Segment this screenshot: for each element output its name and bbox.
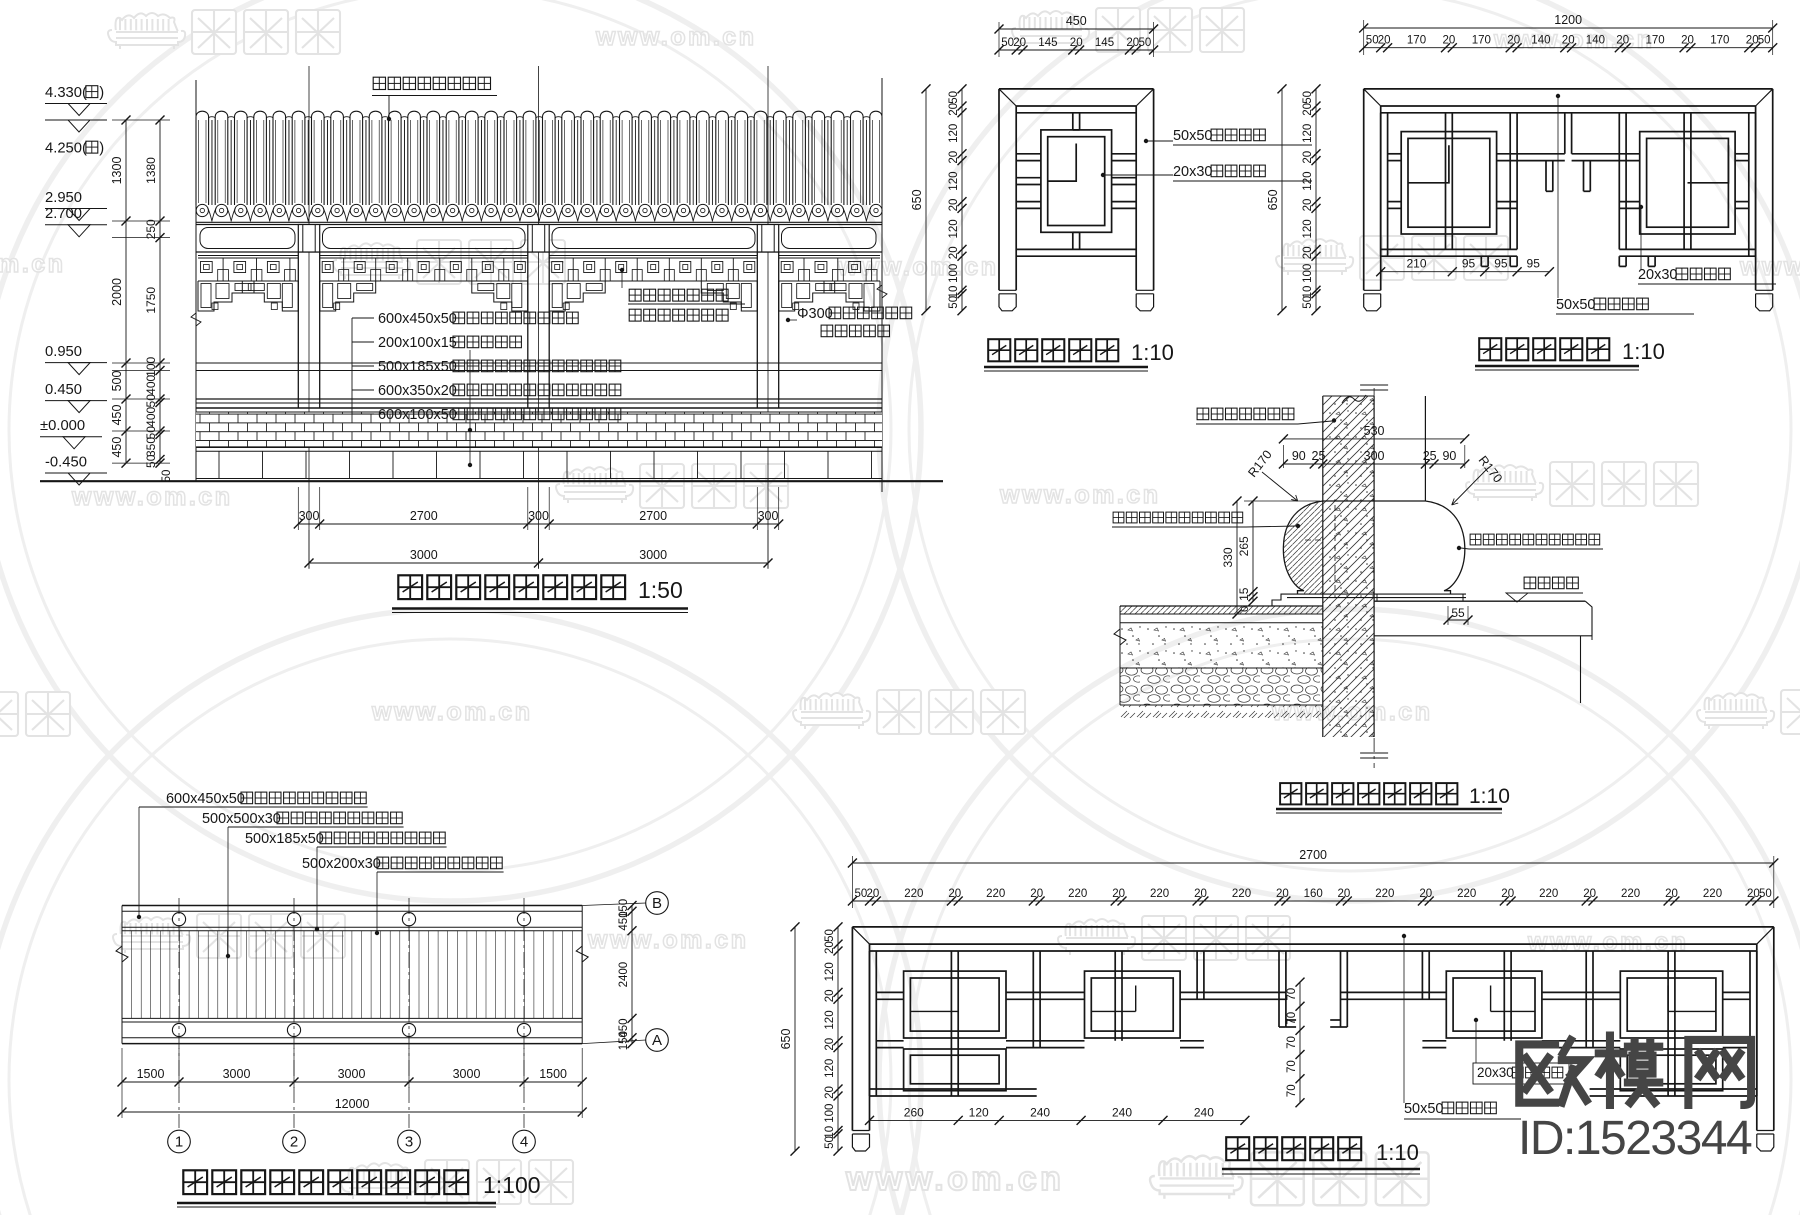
svg-text:600x100x50: 600x100x50 <box>378 407 457 423</box>
elevation eave circles and drips <box>196 204 208 216</box>
elevation bottom dimensions <box>297 487 299 530</box>
svg-text:1:10: 1:10 <box>1131 340 1174 365</box>
column base concrete column section hatch <box>1323 396 1374 737</box>
svg-text:3000: 3000 <box>223 1067 251 1081</box>
svg-text:3000: 3000 <box>338 1067 366 1081</box>
svg-text:12000: 12000 <box>335 1097 370 1111</box>
svg-text:20: 20 <box>1302 103 1314 116</box>
svg-text:220: 220 <box>1457 888 1476 900</box>
column base plinth <box>1287 593 1466 595</box>
svg-text:20: 20 <box>1419 888 1432 900</box>
plan band break marks <box>116 906 128 1044</box>
column neck elevation edge <box>1424 396 1426 501</box>
svg-text:50: 50 <box>1758 35 1771 47</box>
svg-text:20: 20 <box>1302 199 1314 212</box>
svg-text:220: 220 <box>1703 888 1722 900</box>
ground slab 55 dim <box>1447 606 1449 625</box>
svg-text:www.om.cn: www.om.cn <box>837 253 998 281</box>
svg-text:1500: 1500 <box>539 1067 567 1081</box>
svg-text:50: 50 <box>948 296 960 309</box>
adjacent ground slab right <box>1374 600 1585 602</box>
svg-text:250: 250 <box>144 219 158 239</box>
gualuo panel 1 legs and feet <box>852 1130 869 1132</box>
svg-text:500x500x30: 500x500x30 <box>202 811 281 827</box>
site watermark logo 欧模网 <box>1519 1035 1751 1104</box>
column base label 相邻地面 <box>1524 577 1536 589</box>
svg-text:50: 50 <box>1139 37 1152 49</box>
svg-text:120: 120 <box>969 1105 989 1119</box>
plan band horizontal lines <box>122 905 582 907</box>
floor buildup left of column <box>1120 606 1323 614</box>
column base label right 柱墩 <box>1470 534 1481 545</box>
svg-text:20: 20 <box>1126 37 1139 49</box>
elevation hanging fret band <box>198 255 298 257</box>
svg-text:50: 50 <box>144 454 158 468</box>
svg-text:170: 170 <box>1472 35 1491 47</box>
svg-text:100: 100 <box>1302 264 1314 283</box>
svg-text:15: 15 <box>1237 587 1251 601</box>
svg-text:20: 20 <box>1507 35 1520 47</box>
svg-text:450: 450 <box>1066 14 1087 28</box>
elevation brick band <box>196 412 882 447</box>
svg-text:3000: 3000 <box>639 548 667 562</box>
svg-text:50x50: 50x50 <box>1404 1101 1443 1117</box>
elevation vertical dimension chains <box>112 119 170 121</box>
svg-text:50: 50 <box>144 394 158 408</box>
svg-text:www.om.cn: www.om.cn <box>371 698 532 726</box>
svg-text:1300: 1300 <box>110 157 124 185</box>
plan right dim chain <box>631 906 633 1044</box>
svg-text:20: 20 <box>1562 35 1575 47</box>
svg-text:20: 20 <box>1276 888 1289 900</box>
svg-text:1: 1 <box>175 1134 183 1151</box>
svg-text:3000: 3000 <box>453 1067 481 1081</box>
elevation title 长廊标准段立面图 <box>398 575 422 599</box>
svg-text:4: 4 <box>520 1134 528 1151</box>
column base left vertical dims <box>1244 500 1320 502</box>
gualuo panel 3 top dimensions <box>999 28 1154 30</box>
column base top line <box>1323 500 1426 502</box>
svg-text:20: 20 <box>1338 888 1351 900</box>
svg-text:70: 70 <box>1286 1084 1298 1097</box>
gualuo panel 2 top dimensions <box>1364 27 1773 29</box>
svg-text:-0.450: -0.450 <box>45 454 87 470</box>
svg-text:50x50: 50x50 <box>1556 297 1595 313</box>
svg-text:50x50: 50x50 <box>1173 128 1212 144</box>
svg-text:650: 650 <box>779 1029 793 1050</box>
svg-text:95: 95 <box>1462 257 1476 271</box>
svg-text:500x200x30: 500x200x30 <box>302 856 381 872</box>
svg-text:95: 95 <box>1527 257 1541 271</box>
gualuo panel 1 left dimension chains <box>837 927 839 1151</box>
gualuo panel 3 legs and feet <box>999 289 1016 291</box>
elevation grid lines <box>308 66 310 568</box>
svg-text:70: 70 <box>1286 1036 1298 1049</box>
svg-text:100: 100 <box>144 356 158 376</box>
svg-text:20: 20 <box>1112 888 1125 900</box>
svg-text:530: 530 <box>1364 424 1385 438</box>
svg-text:600x450x50: 600x450x50 <box>378 311 457 327</box>
svg-text:1:100: 1:100 <box>483 1172 541 1198</box>
column base label 钢筋混凝土立柱 <box>1197 408 1209 420</box>
svg-text:70: 70 <box>1286 1012 1298 1025</box>
svg-text:0: 0 <box>1239 606 1251 612</box>
svg-text:300: 300 <box>299 509 320 523</box>
svg-text:20: 20 <box>1443 35 1456 47</box>
svg-text:20x30: 20x30 <box>1477 1065 1514 1080</box>
svg-text:600x450x50: 600x450x50 <box>166 791 245 807</box>
svg-text:20: 20 <box>1194 888 1207 900</box>
svg-text:100: 100 <box>948 264 960 283</box>
svg-text:Φ300: Φ300 <box>797 306 833 322</box>
svg-text:20: 20 <box>948 246 960 259</box>
svg-text:20: 20 <box>1013 37 1026 49</box>
svg-text:1:10: 1:10 <box>1622 339 1665 364</box>
svg-text:220: 220 <box>1232 888 1251 900</box>
svg-text:650: 650 <box>1266 189 1280 210</box>
svg-text:170: 170 <box>1646 35 1665 47</box>
svg-text:100: 100 <box>824 1104 836 1123</box>
svg-text:450: 450 <box>110 437 124 458</box>
svg-text:240: 240 <box>1030 1105 1050 1119</box>
gualuo panel 1 labels <box>1403 938 1405 1103</box>
plan bottom dimensions <box>121 1048 123 1088</box>
gualuo panel 2 title <box>1479 338 1501 360</box>
gualuo panel 1 frame <box>852 927 1773 1131</box>
elevation columns <box>297 252 299 408</box>
svg-text:www.om.cn: www.om.cn <box>587 926 748 954</box>
svg-text:160: 160 <box>1304 888 1323 900</box>
column base centerline end marks <box>1360 384 1388 386</box>
svg-text:300: 300 <box>528 509 549 523</box>
svg-text:450: 450 <box>618 911 630 930</box>
gualuo panel 1 inner dims 70x5 <box>1299 982 1301 1103</box>
floor left break line <box>1114 606 1126 705</box>
svg-text:1380: 1380 <box>144 157 158 184</box>
gualuo panel 1 inner dims bottom <box>870 1119 1245 1121</box>
svg-text:1750: 1750 <box>144 287 158 314</box>
svg-text:120: 120 <box>824 1010 836 1029</box>
svg-text:B: B <box>652 895 662 912</box>
svg-text:2700: 2700 <box>639 509 667 523</box>
svg-text:20: 20 <box>1070 37 1083 49</box>
svg-text:50: 50 <box>161 470 173 483</box>
svg-text:www.om.cn: www.om.cn <box>71 483 232 511</box>
svg-text:500x185x50: 500x185x50 <box>378 359 457 375</box>
plan axis bubbles A B <box>582 903 646 906</box>
gualuo panel 2 legs and feet <box>1364 289 1381 291</box>
gualuo panel 1 lattice <box>870 951 1757 1096</box>
svg-text:300: 300 <box>1364 449 1385 463</box>
svg-text:www.om.cn: www.om.cn <box>595 23 756 51</box>
column base centerline <box>1373 388 1375 768</box>
svg-text:4.330(: 4.330( <box>45 85 87 101</box>
gualuo panel 3 frame <box>999 89 1154 290</box>
svg-text:20: 20 <box>1583 888 1596 900</box>
svg-text:220: 220 <box>904 888 923 900</box>
svg-text:140: 140 <box>1531 35 1550 47</box>
svg-text:1:50: 1:50 <box>638 577 683 603</box>
column base dim 530 <box>1282 445 1284 468</box>
svg-text:220: 220 <box>1150 888 1169 900</box>
svg-text:): ) <box>99 140 104 156</box>
svg-text:500: 500 <box>110 371 124 392</box>
svg-text:220: 220 <box>1539 888 1558 900</box>
svg-text:210: 210 <box>1406 257 1426 271</box>
svg-text:120: 120 <box>948 219 960 238</box>
elevation plinth tile row <box>196 478 882 480</box>
svg-text:20: 20 <box>1746 35 1759 47</box>
svg-text:240: 240 <box>1194 1105 1214 1119</box>
svg-text:95: 95 <box>1494 257 1508 271</box>
column base right profile (elevation) <box>1425 501 1464 594</box>
svg-text:20: 20 <box>1302 151 1314 164</box>
svg-text:330: 330 <box>1221 547 1235 567</box>
svg-text:20: 20 <box>1665 888 1678 900</box>
svg-text:20: 20 <box>824 1086 836 1099</box>
elevation note 挂落详见大样图 <box>629 289 641 301</box>
svg-text:50: 50 <box>1366 35 1379 47</box>
gualuo panel 1 title <box>1226 1137 1249 1160</box>
gualuo panel 2 inner dimensions <box>1381 271 1550 273</box>
base left plinth step <box>1272 594 1287 606</box>
gualuo panel 1 top dimensions <box>852 862 1773 864</box>
elevation roof leader 青灰色陶土筒板瓦 <box>373 77 385 89</box>
svg-text:50: 50 <box>1302 296 1314 309</box>
svg-text:50: 50 <box>1001 37 1014 49</box>
svg-text:25: 25 <box>1423 449 1437 463</box>
svg-text:ID:1523344: ID:1523344 <box>1518 1112 1752 1165</box>
svg-text:55: 55 <box>1451 606 1465 620</box>
svg-text:170: 170 <box>1710 35 1729 47</box>
gualuo panel 2 lattice <box>1381 113 1756 267</box>
svg-text:120: 120 <box>948 172 960 191</box>
svg-text:50: 50 <box>855 888 868 900</box>
plan paving grid <box>121 931 123 1019</box>
svg-text:20: 20 <box>1501 888 1514 900</box>
svg-text:50: 50 <box>1759 888 1772 900</box>
gualuo panel 3 left dimension chains <box>961 89 963 311</box>
svg-text:20: 20 <box>948 199 960 212</box>
svg-text:20: 20 <box>948 103 960 116</box>
svg-text:70: 70 <box>1286 988 1298 1001</box>
svg-text:1:10: 1:10 <box>1469 785 1510 808</box>
gualuo panel 3 title <box>988 339 1010 361</box>
svg-text:A: A <box>652 1032 662 1049</box>
svg-text:0.950: 0.950 <box>45 344 82 360</box>
svg-text:400: 400 <box>144 406 158 426</box>
svg-text:90: 90 <box>1442 449 1456 463</box>
svg-text:50: 50 <box>824 929 836 942</box>
plan axis bubbles 1-4 <box>168 1130 191 1153</box>
svg-text:20: 20 <box>1302 246 1314 259</box>
svg-text:3000: 3000 <box>410 548 438 562</box>
svg-text:1:10: 1:10 <box>1376 1140 1419 1165</box>
svg-text:50: 50 <box>824 1136 836 1149</box>
svg-text:240: 240 <box>1112 1105 1132 1119</box>
column base top break line <box>1323 395 1374 397</box>
svg-text:220: 220 <box>1621 888 1640 900</box>
svg-text:140: 140 <box>1586 35 1605 47</box>
svg-text:2700: 2700 <box>410 509 438 523</box>
column base hidden dash lines <box>1334 505 1336 592</box>
svg-text:2.700: 2.700 <box>45 206 82 222</box>
svg-text:220: 220 <box>1375 888 1394 900</box>
elevation spec leader line <box>469 350 471 465</box>
elevation wall edges <box>195 80 197 481</box>
svg-text:2000: 2000 <box>110 278 124 306</box>
svg-text:500x185x50: 500x185x50 <box>245 831 324 847</box>
svg-text:20x30: 20x30 <box>1638 267 1677 283</box>
svg-text:20: 20 <box>1616 35 1629 47</box>
plan title <box>183 1170 207 1194</box>
svg-text:20: 20 <box>867 888 880 900</box>
svg-text:70: 70 <box>1286 1060 1298 1073</box>
column base left profile (section) <box>1283 501 1322 594</box>
svg-text:2.950: 2.950 <box>45 190 82 206</box>
elevation roof barrel tiles <box>196 111 882 222</box>
svg-text:): ) <box>99 85 104 101</box>
svg-text:20x30: 20x30 <box>1173 164 1212 180</box>
svg-text:145: 145 <box>1038 37 1057 49</box>
svg-text:1200: 1200 <box>1554 13 1582 27</box>
svg-text:170: 170 <box>1407 35 1426 47</box>
elevation ground line <box>40 480 943 482</box>
column base label left 柱墩 <box>1113 512 1124 523</box>
svg-text:120: 120 <box>948 124 960 143</box>
svg-text:350: 350 <box>144 437 158 457</box>
svg-text:20: 20 <box>824 941 836 954</box>
svg-text:2400: 2400 <box>618 962 630 988</box>
svg-text:260: 260 <box>904 1105 924 1119</box>
svg-text:20: 20 <box>1378 35 1391 47</box>
svg-text:650: 650 <box>910 189 924 210</box>
gualuo panel 2 frame <box>1364 89 1773 290</box>
svg-text:3: 3 <box>405 1134 413 1151</box>
gualuo panel 2 labels <box>1557 97 1559 298</box>
svg-text:50: 50 <box>1302 91 1314 104</box>
svg-text:220: 220 <box>1068 888 1087 900</box>
svg-text:120: 120 <box>1302 172 1314 191</box>
svg-text:90: 90 <box>1292 449 1306 463</box>
elevation spec annotations <box>351 318 353 414</box>
svg-text:20: 20 <box>824 1038 836 1051</box>
column base dim 90 25 300 25 90 <box>1283 463 1464 465</box>
gualuo panel 3 lattice <box>1016 113 1136 256</box>
svg-text:0.450: 0.450 <box>45 382 82 398</box>
svg-text:1500: 1500 <box>137 1067 165 1081</box>
elevation beam band <box>196 225 882 253</box>
svg-text:120: 120 <box>1302 219 1314 238</box>
svg-text:www.om.cn: www.om.cn <box>0 250 65 278</box>
svg-text:20: 20 <box>1747 888 1760 900</box>
svg-text:600x350x20: 600x350x20 <box>378 383 457 399</box>
svg-text:120: 120 <box>824 962 836 981</box>
svg-text:4.250(: 4.250( <box>45 140 87 156</box>
svg-text:www.om.cn: www.om.cn <box>1739 253 1800 281</box>
svg-text:www.om.cn: www.om.cn <box>845 1160 1064 1198</box>
svg-text:2: 2 <box>290 1134 298 1151</box>
svg-text:25: 25 <box>1312 449 1326 463</box>
svg-text:150: 150 <box>618 1031 630 1050</box>
svg-text:120: 120 <box>824 1059 836 1078</box>
elevation wall bands <box>196 362 882 364</box>
svg-text:300: 300 <box>758 509 779 523</box>
svg-text:20: 20 <box>948 151 960 164</box>
svg-text:±0.000: ±0.000 <box>40 418 85 434</box>
svg-text:200x100x15: 200x100x15 <box>378 335 457 351</box>
plan column circles <box>172 913 185 926</box>
svg-text:20: 20 <box>948 888 961 900</box>
svg-text:20: 20 <box>1030 888 1043 900</box>
svg-text:120: 120 <box>1302 124 1314 143</box>
column base title <box>1280 783 1301 804</box>
svg-text:265: 265 <box>1237 536 1251 556</box>
svg-text:145: 145 <box>1095 37 1114 49</box>
gualuo panel 2 left dimension chains <box>1315 89 1317 311</box>
svg-text:2700: 2700 <box>1299 848 1327 862</box>
svg-text:www.om.cn: www.om.cn <box>999 481 1160 509</box>
svg-text:220: 220 <box>986 888 1005 900</box>
svg-text:20: 20 <box>1681 35 1694 47</box>
plan axis dashed lines <box>178 898 180 1128</box>
svg-text:50: 50 <box>948 91 960 104</box>
svg-text:20: 20 <box>824 990 836 1003</box>
svg-text:450: 450 <box>110 405 124 426</box>
svg-text:400: 400 <box>144 374 158 394</box>
